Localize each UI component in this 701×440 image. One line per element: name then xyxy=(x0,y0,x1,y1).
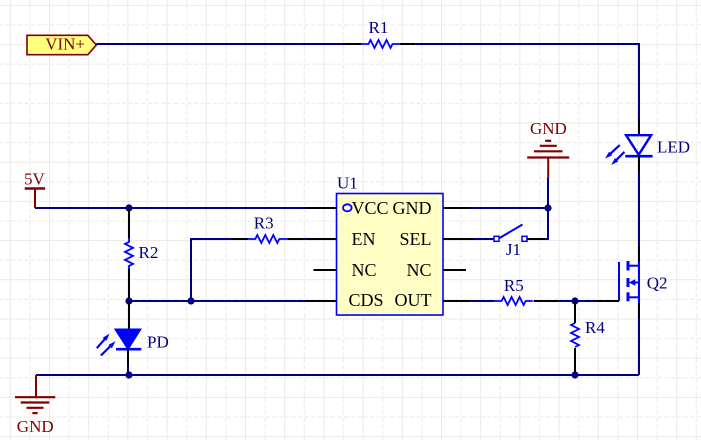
IC U1 xyxy=(337,174,444,316)
svg-text:NC: NC xyxy=(352,260,377,280)
wire OUT to R5 xyxy=(471,300,495,302)
junction R4/bottom rail xyxy=(571,371,578,378)
ground GND top (inverted) xyxy=(527,119,569,178)
junction PD/bottom rail xyxy=(125,371,132,378)
resistor R1 xyxy=(345,18,416,48)
pin EN stub xyxy=(307,238,337,240)
junction EN riser xyxy=(187,297,194,304)
junction R5/R4/gate xyxy=(571,297,578,304)
wire Q2 source down xyxy=(638,318,640,375)
wire PD to bottom rail xyxy=(127,365,129,375)
resistor R2 xyxy=(125,208,158,301)
LED xyxy=(605,119,690,171)
wire top left xyxy=(96,43,345,45)
pin NC right stub xyxy=(443,269,466,271)
svg-text:GND: GND xyxy=(530,119,567,138)
port VIN+ xyxy=(27,35,96,55)
ground GND bottom left xyxy=(15,375,55,436)
wire CDS row xyxy=(129,300,307,302)
svg-text:R1: R1 xyxy=(369,18,389,37)
photodiode PD xyxy=(97,301,169,365)
wire 5V rail to VCC xyxy=(35,207,307,209)
junction 5V/R2 xyxy=(125,204,132,211)
resistor R3 xyxy=(232,213,303,243)
switch J1 xyxy=(473,225,545,260)
svg-text:R5: R5 xyxy=(504,276,524,295)
svg-text:VCC: VCC xyxy=(352,198,389,218)
pin SEL stub xyxy=(443,238,473,240)
svg-text:CDS: CDS xyxy=(349,290,384,310)
wire R5 to gate node xyxy=(559,300,597,302)
svg-text:NC: NC xyxy=(406,260,431,280)
svg-text:R4: R4 xyxy=(585,318,605,337)
pin VCC stub xyxy=(307,207,337,209)
svg-text:5V: 5V xyxy=(24,169,46,188)
pin OUT stub xyxy=(443,300,471,302)
svg-text:LED: LED xyxy=(657,138,690,157)
svg-text:SEL: SEL xyxy=(399,229,431,249)
pin GND stub xyxy=(443,207,470,209)
pin NC left stub xyxy=(314,269,337,271)
wire R3 to EN xyxy=(303,238,307,240)
wire top right xyxy=(416,44,639,119)
svg-text:R2: R2 xyxy=(139,243,159,262)
junction GND node xyxy=(544,204,551,211)
wire EN riser xyxy=(191,239,232,301)
svg-text:GND: GND xyxy=(17,417,54,436)
transistor Q2 xyxy=(597,246,667,318)
svg-text:VIN+: VIN+ xyxy=(45,35,85,54)
power 5V xyxy=(24,169,46,208)
svg-text:U1: U1 xyxy=(337,174,358,193)
svg-text:OUT: OUT xyxy=(395,290,432,310)
svg-text:EN: EN xyxy=(352,229,376,249)
svg-text:GND: GND xyxy=(393,198,432,218)
svg-text:J1: J1 xyxy=(506,240,521,259)
pin CDS stub xyxy=(307,300,337,302)
svg-text:PD: PD xyxy=(147,333,169,352)
svg-text:Q2: Q2 xyxy=(647,274,668,293)
wire LED to Q2 xyxy=(638,171,640,246)
wire bottom rail xyxy=(36,374,639,376)
svg-text:R3: R3 xyxy=(254,213,274,232)
resistor R5 xyxy=(495,276,559,305)
wire GND riser xyxy=(547,178,549,208)
resistor R4 xyxy=(571,301,605,373)
wire J1 to GND node xyxy=(545,208,548,239)
junction R2/PD/CDS xyxy=(125,297,132,304)
wire GND pin to ground xyxy=(470,207,548,209)
